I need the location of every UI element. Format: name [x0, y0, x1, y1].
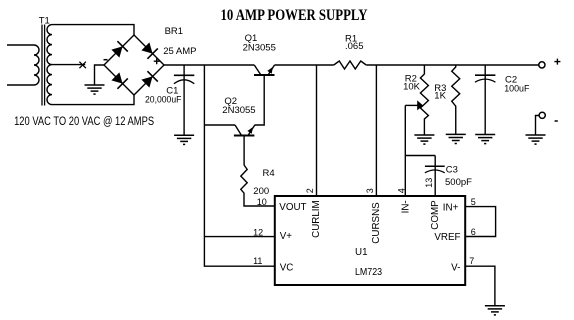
- svg-text:6: 6: [471, 227, 476, 237]
- svg-text:R4: R4: [263, 168, 275, 179]
- svg-text:2N3055: 2N3055: [243, 42, 276, 53]
- svg-text:1K: 1K: [434, 90, 446, 101]
- svg-text:LM723: LM723: [355, 267, 383, 278]
- svg-text:2N3055: 2N3055: [222, 105, 255, 116]
- svg-text:CURLIM: CURLIM: [311, 200, 322, 238]
- svg-text:10K: 10K: [403, 82, 421, 93]
- svg-text:100uF: 100uF: [504, 83, 529, 94]
- svg-text:12: 12: [253, 227, 263, 237]
- svg-text:200: 200: [253, 186, 269, 197]
- svg-text:T1: T1: [39, 15, 50, 26]
- svg-text:500pF: 500pF: [445, 177, 472, 188]
- svg-text:10 AMP POWER SUPPLY: 10 AMP POWER SUPPLY: [221, 7, 368, 24]
- svg-text:COMP: COMP: [430, 200, 441, 230]
- svg-text:2: 2: [305, 188, 315, 193]
- svg-text:BR1: BR1: [165, 26, 183, 37]
- svg-text:13: 13: [424, 178, 434, 188]
- svg-text:120 VAC TO 20 VAC @ 12 AMPS: 120 VAC TO 20 VAC @ 12 AMPS: [14, 116, 154, 128]
- svg-text:4: 4: [397, 188, 407, 193]
- svg-text:U1: U1: [355, 247, 368, 258]
- svg-text:C3: C3: [446, 165, 458, 176]
- svg-text:IN-: IN-: [400, 200, 411, 213]
- svg-text:25 AMP: 25 AMP: [163, 46, 196, 57]
- svg-text:V+: V+: [280, 231, 293, 242]
- svg-text:VREF: VREF: [434, 232, 460, 243]
- svg-text:.065: .065: [345, 41, 364, 52]
- svg-text:5: 5: [471, 197, 476, 207]
- svg-text:20,000uF: 20,000uF: [145, 95, 182, 106]
- svg-text:3: 3: [365, 188, 375, 193]
- svg-text:VOUT: VOUT: [279, 202, 306, 213]
- svg-text:VC: VC: [280, 263, 294, 274]
- svg-text:7: 7: [469, 256, 474, 266]
- svg-text:10: 10: [257, 197, 267, 207]
- svg-text:CURSNS: CURSNS: [371, 202, 382, 244]
- svg-text:IN+: IN+: [443, 203, 459, 214]
- svg-text:11: 11: [253, 256, 262, 266]
- svg-text:V-: V-: [451, 262, 460, 273]
